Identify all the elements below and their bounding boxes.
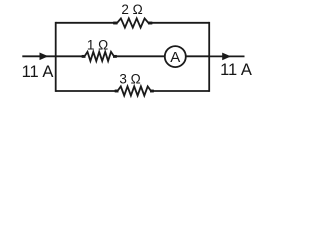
resistor 3ohm (bottom branch) bbox=[115, 86, 155, 95]
wire: top branch right segment bbox=[152, 22, 209, 24]
svg-text:2 Ω: 2 Ω bbox=[121, 2, 142, 17]
svg-text:A: A bbox=[170, 49, 180, 66]
resistor 2ohm (top branch) bbox=[113, 18, 153, 27]
wire: middle branch between resistor and ammeter bbox=[117, 55, 166, 57]
ammeter A (circle) bbox=[165, 46, 186, 67]
current arrow into left node bbox=[40, 53, 49, 61]
wire: middle branch ammeter to right bus bbox=[185, 55, 209, 57]
resistor end dashes (thick stubs) bbox=[82, 23, 154, 91]
current arrow out of right node bbox=[222, 53, 231, 61]
wire: left vertical bus bbox=[55, 22, 57, 92]
svg-text:11 A: 11 A bbox=[220, 61, 252, 79]
svg-text:3 Ω: 3 Ω bbox=[119, 71, 140, 86]
wire: bottom branch right segment bbox=[154, 90, 210, 92]
svg-text:11 A: 11 A bbox=[22, 63, 54, 81]
svg-text:1 Ω: 1 Ω bbox=[87, 37, 108, 52]
wire: bottom branch left segment bbox=[56, 90, 115, 92]
resistor 1ohm (middle branch) bbox=[82, 52, 118, 61]
wire: right vertical bus bbox=[208, 22, 210, 92]
wire: left input lead bbox=[22, 55, 55, 57]
wire: right output lead bbox=[209, 55, 244, 57]
wire: middle branch left segment bbox=[56, 55, 82, 57]
wire: top branch left segment bbox=[56, 22, 114, 24]
